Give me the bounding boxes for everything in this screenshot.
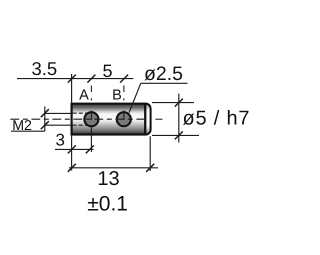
hidden line M2 thread top bbox=[73, 112, 90, 114]
tick 3 left bbox=[68, 145, 76, 153]
M2 extension line bottom bbox=[45, 124, 72, 126]
extension line part left top bbox=[71, 74, 73, 103]
top dimension line (3.5 and 5) bbox=[17, 78, 133, 80]
dia 5 h7 extension line top bbox=[152, 102, 194, 104]
hole A vertical centerline bbox=[90, 86, 92, 153]
svg-text:ø2.5: ø2.5 bbox=[144, 63, 183, 85]
dia 2.5 leader to hole B bbox=[129, 83, 141, 112]
dia 2.5 leader shoulder bbox=[141, 82, 188, 84]
svg-text:3: 3 bbox=[56, 131, 65, 150]
extension line part left bottom bbox=[71, 136, 73, 171]
svg-text:ø5 / h7: ø5 / h7 bbox=[183, 108, 251, 130]
tick 3 right bbox=[86, 145, 94, 153]
M2 extension line top bbox=[45, 112, 72, 114]
tick 13 left bbox=[68, 164, 76, 172]
dia 5 h7 extension line bottom bbox=[152, 134, 199, 136]
svg-text:5: 5 bbox=[102, 61, 112, 81]
M2 tick top bbox=[41, 109, 49, 117]
tick at hole A bbox=[87, 75, 95, 83]
cylinder body (side view rectangle) bbox=[72, 104, 146, 135]
main horizontal centerline bbox=[10, 118, 146, 120]
tick at hole B bbox=[120, 75, 128, 83]
svg-text:M2: M2 bbox=[12, 118, 32, 134]
dimension 13 line bbox=[69, 167, 158, 169]
M2 leader shoulder bbox=[11, 130, 45, 132]
tick at part left edge bbox=[68, 75, 76, 83]
cylinder end cap (right chamfered end) bbox=[145, 104, 150, 135]
svg-text:A: A bbox=[79, 88, 89, 104]
dimension 3 line bbox=[55, 148, 94, 150]
M2 tick bottom bbox=[41, 121, 49, 129]
centerline dash right of cap bbox=[155, 118, 162, 120]
hidden line M2 thread bottom bbox=[73, 124, 90, 126]
svg-text:3.5: 3.5 bbox=[32, 58, 58, 79]
hole B vertical centerline bbox=[123, 86, 125, 120]
hole B bbox=[117, 112, 131, 126]
M2 dimension vertical line bbox=[44, 107, 46, 132]
dia 5 h7 dimension vertical line bbox=[178, 94, 180, 143]
hole A bbox=[84, 112, 98, 126]
tick 13 right bbox=[146, 164, 154, 172]
svg-text:B: B bbox=[112, 88, 122, 104]
dia5 tick bottom bbox=[175, 131, 183, 139]
dia5 tick top bbox=[175, 99, 183, 107]
svg-text:±0.1: ±0.1 bbox=[87, 193, 128, 216]
svg-text:13: 13 bbox=[97, 168, 119, 190]
extension line part right bottom bbox=[149, 136, 151, 171]
